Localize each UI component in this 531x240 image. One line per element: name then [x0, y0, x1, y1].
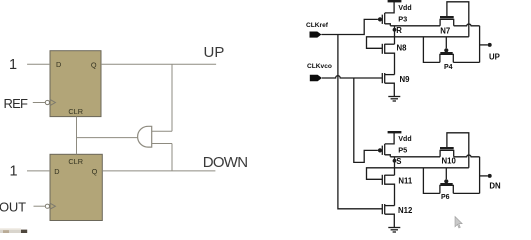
svg-text:UP: UP: [204, 44, 225, 61]
svg-text:Vdd: Vdd: [398, 5, 411, 12]
svg-text:P6: P6: [441, 194, 450, 201]
svg-text:Vdd: Vdd: [398, 136, 411, 143]
svg-text:DN: DN: [489, 182, 501, 191]
svg-text:REF: REF: [4, 96, 28, 111]
svg-text:D: D: [56, 60, 61, 69]
svg-text:P3: P3: [398, 15, 407, 24]
svg-text:UP: UP: [489, 53, 500, 62]
svg-text:N7: N7: [440, 26, 450, 35]
svg-text:N9: N9: [400, 75, 411, 84]
svg-text:R: R: [396, 26, 402, 35]
svg-text:CLKvco: CLKvco: [307, 63, 332, 70]
svg-text:1: 1: [10, 164, 18, 180]
svg-text:CLKref: CLKref: [306, 22, 329, 29]
svg-text:P5: P5: [398, 146, 407, 155]
svg-text:OUT: OUT: [0, 200, 26, 215]
svg-text:DOWN: DOWN: [203, 154, 248, 171]
svg-text:Q: Q: [91, 61, 97, 70]
svg-text:N10: N10: [442, 157, 457, 166]
svg-text:S: S: [396, 157, 401, 166]
svg-text:N8: N8: [397, 43, 408, 52]
svg-text:P4: P4: [444, 64, 453, 71]
svg-text:Q: Q: [92, 167, 98, 176]
svg-text:D: D: [54, 167, 59, 176]
svg-text:1: 1: [9, 57, 17, 73]
svg-text:CLR: CLR: [68, 107, 83, 116]
svg-text:N11: N11: [398, 176, 413, 185]
svg-text:CLR: CLR: [68, 157, 83, 166]
svg-text:N12: N12: [398, 206, 413, 215]
